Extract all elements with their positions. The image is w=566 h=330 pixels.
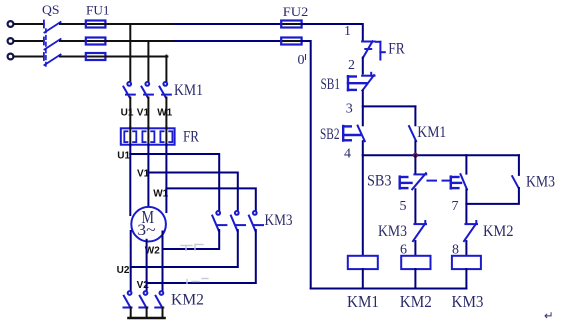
svg-text:U1: U1 [117, 150, 130, 161]
wire V1 row [148, 145, 237, 210]
wire L3 to QS [14, 56, 44, 58]
contactor KM2 main contact 1 [124, 291, 132, 307]
wire SB3 NO top stub [465, 155, 467, 173]
junction node4 red dot [413, 153, 418, 158]
contact KM1 aux NO [409, 126, 416, 141]
wire V2 from motor to KM3 contact3 bottom [147, 230, 256, 283]
faint watermark mark 1 [181, 245, 203, 251]
fuse FU1b [86, 38, 106, 45]
wire right branch down and to node7 [466, 188, 519, 204]
svg-text:FU1: FU1 [86, 4, 110, 18]
svg-text:SB3: SB3 [367, 173, 392, 190]
contactor KM3 main contact 1 [212, 211, 226, 231]
QS pole 3 [44, 53, 61, 65]
fuse FU2a [281, 21, 302, 28]
wire QS to FU1 line2 [60, 40, 86, 42]
fuse FU2b [281, 38, 302, 45]
svg-text:5: 5 [400, 199, 407, 214]
wire drop phase1 from line1 [129, 24, 131, 81]
svg-text:2: 2 [348, 58, 355, 73]
svg-text:FR: FR [183, 128, 200, 145]
SB3 NO part actuator E [451, 177, 461, 189]
svg-text:KM2: KM2 [483, 223, 514, 240]
svg-text:3~: 3~ [137, 222, 156, 239]
wire KM2 bottom stubs to star bar [131, 308, 163, 318]
wire node4 bus [363, 154, 519, 156]
svg-text:KM3: KM3 [378, 223, 407, 240]
wire FU2b to 0 rail corner [302, 41, 311, 289]
wire W1 row [166, 145, 255, 210]
wire coil KM2 bottom [414, 269, 416, 288]
svg-text:FR: FR [388, 41, 405, 58]
pushbutton SB3 NO contact [461, 174, 468, 189]
FR trip symbol [376, 42, 385, 60]
coil KM1 [348, 256, 378, 269]
wire U1 row [130, 145, 219, 210]
svg-text:V1: V1 [137, 108, 150, 119]
coil KM2 [401, 256, 430, 269]
terminal L2 [8, 38, 14, 44]
wire line2 FU1 to FU2 [105, 40, 175, 42]
contactor KM3 main contact 3 [249, 211, 263, 231]
wire SB3 NC top stub [414, 155, 416, 173]
contactor KM1 main contact 3 [160, 82, 171, 98]
svg-text:KM2: KM2 [171, 292, 204, 309]
wire line1 FU1 to FU2 [105, 23, 175, 25]
QS linkage dashed [45, 29, 47, 66]
wire KM2 NC bottom to coil KM3 [465, 241, 467, 256]
contactor KM2 main contact 2 [139, 291, 147, 307]
svg-text:W1: W1 [157, 108, 172, 119]
QS pole 1 [44, 21, 61, 33]
terminal L3 [8, 54, 14, 60]
svg-text:U1: U1 [121, 108, 134, 119]
wire W2 down to KM2 contact3 [162, 249, 164, 290]
coil KM3 [452, 256, 481, 269]
wire W1 phase down to motor [165, 188, 167, 212]
contact KM3 aux NO right [512, 176, 519, 188]
FR heater element 3 [160, 127, 172, 145]
wire coil KM3 bottom [465, 269, 467, 288]
svg-text:4: 4 [344, 147, 351, 162]
contactor KM2 main contact 3 [155, 291, 163, 307]
wire rail node4 down to coil KM1 [362, 155, 364, 256]
fuse FU1c [86, 53, 106, 60]
wire KM1 aux top stub [414, 106, 416, 125]
wire FU2a to right rail corner [302, 24, 363, 40]
wire rail node3 [362, 91, 364, 126]
pushbutton SB1 NC [362, 73, 374, 91]
wire node3 branch to KM1 aux [363, 105, 416, 107]
svg-text:FU2: FU2 [283, 5, 309, 19]
wire SB3 NO bottom to node7 to KM2 NC [465, 190, 467, 223]
pushbutton SB2 NO [358, 126, 365, 142]
wire drop phase3 from line3 corner [165, 56, 167, 81]
terminal L1 [8, 21, 14, 27]
FR heater element 1 [124, 127, 136, 145]
wire U2 down to KM2 contact1 [130, 267, 132, 290]
SB1 actuator E [348, 76, 367, 90]
svg-text:KM3: KM3 [265, 212, 293, 229]
svg-text:1: 1 [344, 24, 351, 39]
svg-text:0: 0 [298, 53, 305, 68]
wire L1 to QS [14, 23, 44, 25]
wire coil KM1 bottom [362, 269, 364, 288]
contactor KM3 main contact 2 [231, 211, 245, 231]
contact KM3 aux NC [413, 221, 426, 241]
svg-text:KM1: KM1 [347, 292, 379, 311]
wire U2 from motor to KM2 and KM3 contact2 bottom [131, 230, 238, 267]
wire KM1 bottom stub 3 [165, 98, 167, 129]
wire V1 phase down to motor [147, 173, 149, 206]
wire bottom rail [311, 288, 467, 290]
QS pole 2 [44, 38, 61, 50]
svg-text:KM3: KM3 [452, 292, 484, 311]
wire QS to FU1 line1 [60, 23, 86, 25]
wire KM3 NC bottom to coil KM2 [414, 241, 416, 256]
wire V2 down to KM2 contact2 [146, 283, 148, 290]
svg-text:QS: QS [42, 2, 60, 17]
pushbutton SB3 NC part [412, 173, 426, 189]
svg-text:KM1: KM1 [174, 82, 203, 99]
wire KM1 bottom stub 2 [147, 98, 149, 129]
wire KM1 aux bottom to node4 [414, 141, 416, 155]
wire L2 to QS [14, 40, 44, 42]
svg-text:U2: U2 [117, 265, 130, 276]
wire QS to FU1 line3 [60, 56, 86, 58]
wire U1 phase down to motor [129, 154, 131, 215]
wire KM1 bottom stub 1 [129, 98, 131, 129]
SB3 mechanical link dashes [428, 180, 451, 182]
svg-text:KM3: KM3 [526, 173, 555, 190]
node 0 tick [305, 55, 307, 60]
SB3 actuator E [400, 177, 412, 189]
svg-text:KM2: KM2 [400, 292, 432, 311]
contact KM2 aux NC [464, 221, 477, 241]
fuse FU1a [86, 21, 106, 28]
contactor KM1 main contact 1 [123, 82, 134, 98]
wire far right branch from node4 [518, 155, 520, 175]
svg-text:KM1: KM1 [417, 124, 446, 141]
wire SB2 bottom to node4 [362, 141, 364, 155]
wire rail node2 [362, 58, 364, 74]
thermal relay FR NC contact [362, 41, 375, 58]
thermal relay FR heater box [121, 128, 175, 144]
faint watermark mark 2 [187, 279, 208, 284]
star point bar [128, 317, 164, 319]
svg-text:3: 3 [346, 102, 353, 117]
FR heater element 2 [142, 127, 154, 145]
motor M [131, 207, 166, 242]
svg-text:↵: ↵ [544, 311, 554, 323]
wire W2 row from motor to KM3 contact1 bottom [163, 230, 220, 249]
svg-text:7: 7 [452, 199, 459, 214]
wire line3 FU1 to corner [105, 56, 148, 58]
SB2 actuator E [343, 126, 360, 141]
wire drop phase2 from line2 [147, 41, 149, 81]
contactor KM1 main contact 2 [142, 82, 153, 98]
wire SB3 NC bottom stub [414, 189, 416, 223]
svg-text:SB2: SB2 [320, 126, 340, 143]
svg-text:SB1: SB1 [321, 76, 341, 93]
